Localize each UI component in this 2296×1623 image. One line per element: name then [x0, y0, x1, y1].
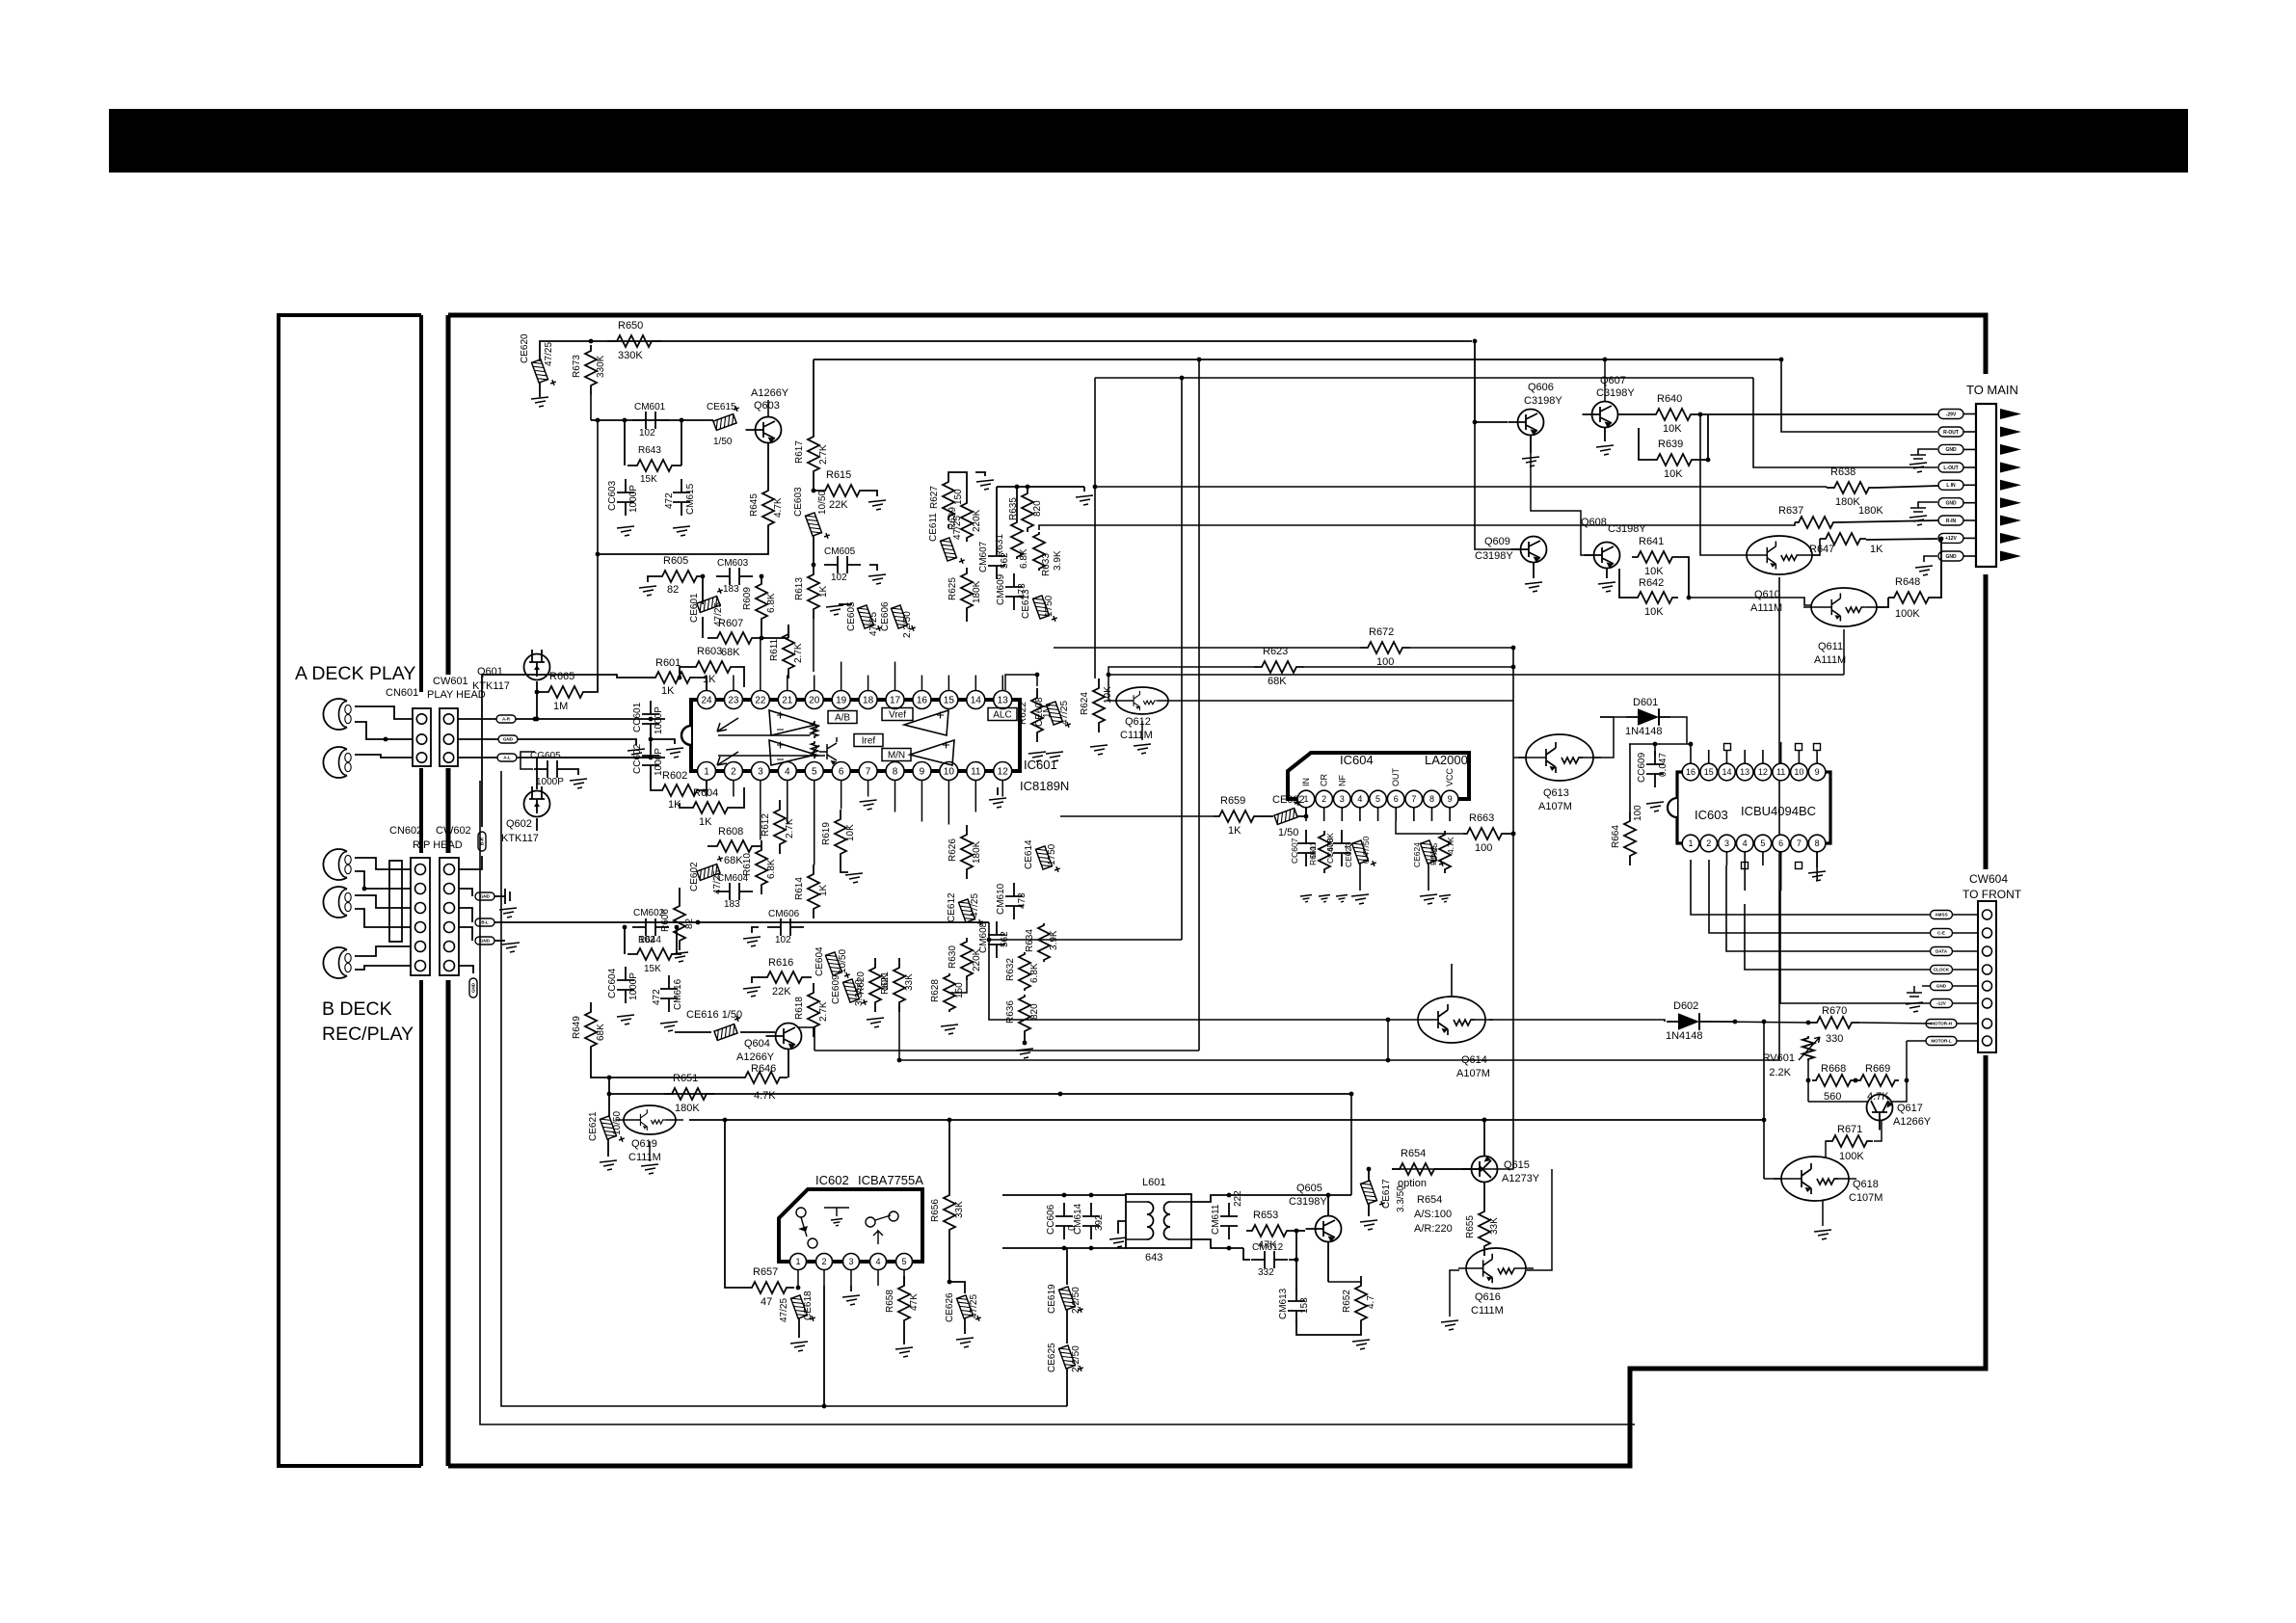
rec/play head B2	[323, 887, 351, 918]
IC601 pin stubs bottom	[706, 781, 707, 797]
svg-text:10K: 10K	[1663, 423, 1682, 435]
svg-text:R648: R648	[1895, 576, 1920, 588]
net label GND	[458, 738, 498, 740]
ground Q609	[1533, 563, 1535, 578]
svg-text:R632: R632	[1005, 958, 1016, 981]
svg-text:11: 11	[971, 767, 981, 778]
capacitor CG605	[534, 768, 571, 770]
svg-text:1N4148: 1N4148	[1625, 726, 1663, 737]
svg-text:B DECK: B DECK	[322, 998, 392, 1020]
resistor R603	[692, 661, 734, 673]
svg-text:R654: R654	[1417, 1194, 1442, 1206]
connector CW602	[440, 858, 459, 975]
wire q613 leads	[1513, 757, 1526, 758]
svg-text:VCC: VCC	[1445, 767, 1455, 786]
capacitor CE613	[1032, 593, 1057, 625]
resistor R627	[943, 478, 954, 520]
resistor R601	[650, 672, 696, 683]
resistor R631	[1011, 520, 1023, 559]
svg-text:R604: R604	[693, 787, 718, 799]
wire pin13 to R622	[1005, 675, 1037, 690]
svg-text:4.7K: 4.7K	[1446, 837, 1455, 854]
svg-text:A1273Y: A1273Y	[1502, 1173, 1540, 1184]
svg-text:CE617: CE617	[1381, 1179, 1392, 1209]
ground Q608	[1606, 569, 1608, 578]
net label R-IN pin 7 TO MAIN	[1938, 516, 1963, 525]
pack Q612	[1108, 687, 1176, 714]
svg-text:R615: R615	[826, 469, 851, 481]
pin 5 IC603	[1754, 835, 1772, 852]
pin 2 IC604	[1316, 790, 1333, 808]
resistor R615	[814, 481, 815, 491]
capacitor CM604	[716, 891, 753, 892]
capacitor CM614	[1090, 1203, 1092, 1239]
wire Q619 out	[689, 1119, 1764, 1121]
capacitor CM607	[996, 543, 998, 579]
svg-text:CE621: CE621	[588, 1111, 599, 1141]
svg-text:R665: R665	[549, 671, 574, 682]
svg-text:33K: 33K	[904, 973, 915, 991]
svg-text:IC601: IC601	[1024, 758, 1057, 772]
wire record bus 1090	[814, 1050, 1199, 1051]
svg-text:ICBU4094BC: ICBU4094BC	[1741, 804, 1816, 818]
resistor R643	[624, 420, 626, 466]
svg-text:R643: R643	[638, 445, 661, 456]
svg-text:R673: R673	[572, 355, 582, 378]
svg-text:CE606: CE606	[880, 601, 891, 631]
svg-text:5: 5	[1375, 794, 1380, 804]
capacitor CE616	[675, 1031, 711, 1033]
resistor R622	[1031, 688, 1043, 742]
capacitor CM608	[996, 921, 998, 958]
resistor R637	[1795, 517, 1837, 528]
pin 6 IC603	[1773, 835, 1790, 852]
svg-text:4: 4	[1357, 794, 1362, 804]
svg-text:CM611: CM611	[1211, 1204, 1221, 1235]
capacitor CM611	[1228, 1203, 1230, 1239]
resistor R609	[761, 574, 762, 576]
svg-text:2.7K: 2.7K	[818, 1001, 829, 1022]
resistor R607	[702, 617, 704, 638]
connector CN602	[389, 861, 402, 942]
svg-text:L IN: L IN	[1946, 483, 1956, 489]
net label CLOCK pin 4 CW604	[1983, 965, 1992, 974]
net label -29V pin 1 TO MAIN	[1938, 410, 1963, 419]
resistor R657	[744, 1282, 794, 1293]
svg-text:R653: R653	[1253, 1210, 1278, 1221]
svg-text:A1266Y: A1266Y	[1893, 1116, 1932, 1128]
resistor R653	[1246, 1225, 1293, 1237]
resistor R655	[1483, 1183, 1485, 1202]
svg-text:GND: GND	[480, 894, 491, 899]
pin 8 IC604	[1424, 790, 1441, 808]
net label +12V pin 8 TO MAIN	[1938, 533, 1963, 543]
svg-text:33K: 33K	[954, 1201, 965, 1218]
pin 8 IC603	[1808, 835, 1826, 852]
svg-text:10: 10	[944, 767, 955, 778]
wire A-L to IC	[517, 757, 665, 758]
svg-text:CE602: CE602	[689, 862, 700, 891]
resistor R635	[1022, 490, 1033, 532]
wire -29V bus	[1707, 414, 1709, 460]
pin 4 IC603	[1736, 835, 1753, 852]
wire D602 node	[1711, 1022, 1808, 1023]
pin 12 IC601	[994, 762, 1012, 781]
connector CN601	[413, 708, 431, 766]
svg-text:CE609: CE609	[831, 974, 841, 1004]
wire Q601	[536, 681, 538, 719]
wire vertical x1570	[1392, 701, 1513, 1169]
ground R673	[590, 391, 592, 395]
svg-text:R607: R607	[718, 618, 743, 629]
svg-text:100: 100	[1633, 805, 1643, 821]
pin 1 IC603	[1682, 835, 1699, 852]
wire y1100	[899, 1059, 1779, 1061]
svg-text:8: 8	[1429, 794, 1434, 804]
svg-text:IC603: IC603	[1695, 808, 1728, 822]
svg-text:560: 560	[1824, 1091, 1841, 1103]
net label DATA pin 3 CW604	[1983, 946, 1992, 956]
svg-text:180K: 180K	[972, 580, 982, 603]
net label B-L	[459, 908, 472, 922]
capacitor CE602	[694, 855, 727, 880]
svg-text:68K: 68K	[596, 1024, 606, 1041]
capacitor CE619	[1066, 1248, 1068, 1285]
svg-text:GND: GND	[1945, 501, 1957, 507]
transistor Q603	[746, 417, 782, 443]
ground IC602 pin3	[850, 1286, 852, 1291]
svg-text:A107M: A107M	[1538, 801, 1572, 812]
svg-text:68K: 68K	[1268, 676, 1287, 687]
resistor R644	[627, 948, 681, 960]
svg-text:Q619: Q619	[631, 1138, 657, 1150]
svg-text:GND: GND	[1945, 447, 1957, 453]
svg-text:4.7K: 4.7K	[754, 1090, 776, 1102]
svg-text:183: 183	[723, 584, 739, 595]
svg-text:CE613: CE613	[1021, 589, 1031, 619]
svg-text:CE605: CE605	[846, 601, 857, 631]
main schematic frame	[448, 315, 1986, 374]
svg-text:2.2/50: 2.2/50	[902, 611, 913, 638]
pin 6 IC601	[832, 762, 850, 781]
pin 3 IC603	[1719, 835, 1736, 852]
ground CM605	[869, 565, 877, 571]
pin 2 IC601	[724, 762, 742, 781]
svg-text:820: 820	[1029, 1003, 1040, 1020]
svg-text:472: 472	[652, 989, 662, 1005]
capacitor CE614	[1035, 843, 1060, 876]
svg-text:1000P: 1000P	[628, 972, 639, 1000]
transistor Q617	[1867, 1095, 1893, 1131]
ground CE620	[531, 397, 548, 407]
svg-text:R671: R671	[1837, 1124, 1862, 1135]
svg-text:A-L: A-L	[503, 756, 511, 760]
net label L-OUT pin 4 TO MAIN	[1938, 463, 1963, 472]
pin 4 IC602	[870, 1254, 887, 1270]
svg-text:Q617: Q617	[1897, 1103, 1923, 1114]
svg-text:7: 7	[1797, 838, 1802, 848]
pin 1 IC601	[698, 762, 716, 781]
svg-text:5: 5	[812, 767, 817, 778]
svg-text:-12V: -12V	[1936, 1001, 1947, 1006]
IC602 pin stubs	[797, 1270, 799, 1287]
svg-text:10/50: 10/50	[817, 491, 828, 515]
svg-text:47/25: 47/25	[1059, 701, 1070, 725]
resistor R670	[1809, 1017, 1859, 1028]
svg-text:CE601: CE601	[689, 593, 700, 623]
resistor R651	[664, 1088, 714, 1100]
capacitor CC606	[1063, 1203, 1065, 1239]
wire IC602 pin2 down	[823, 1286, 825, 1406]
svg-text:10K: 10K	[845, 824, 856, 841]
svg-text:2.7K: 2.7K	[818, 444, 829, 465]
svg-text:R636: R636	[1005, 1000, 1016, 1024]
net label B-R vertical	[459, 856, 482, 869]
svg-text:A107M: A107M	[1456, 1068, 1490, 1079]
svg-text:CE616 1/50: CE616 1/50	[686, 1009, 742, 1021]
svg-text:Iref: Iref	[862, 736, 876, 747]
net label R-OUT pin 2 TO MAIN	[1938, 427, 1963, 437]
svg-text:1K: 1K	[818, 585, 829, 598]
svg-text:100K: 100K	[1839, 1151, 1864, 1162]
svg-text:CW604: CW604	[1969, 872, 2008, 886]
svg-text:2: 2	[1706, 838, 1711, 848]
wire R650 net	[540, 341, 1472, 361]
svg-text:82: 82	[667, 584, 679, 596]
wire +12V net	[1866, 539, 1937, 540]
svg-text:222: 222	[1233, 1190, 1243, 1207]
svg-text:R/P HEAD: R/P HEAD	[413, 839, 463, 851]
resistor R672	[1360, 642, 1410, 653]
wire B-R up	[482, 675, 598, 827]
pin 18 IC601	[859, 691, 877, 709]
svg-text:562: 562	[1000, 552, 1010, 569]
capacitor CM612	[1251, 1259, 1288, 1261]
ground pin7 IC601	[860, 800, 877, 810]
svg-text:CE608: CE608	[1034, 697, 1045, 727]
ground GND pin6	[1918, 502, 1937, 508]
IC603 terminal squares	[1724, 744, 1731, 751]
svg-text:10K: 10K	[1664, 468, 1683, 480]
IC602 internal switches	[796, 1208, 806, 1217]
svg-text:A/R:220: A/R:220	[1414, 1223, 1453, 1235]
svg-text:R646: R646	[751, 1063, 776, 1075]
wire Q603 collector down	[598, 535, 768, 554]
svg-text:CM615: CM615	[685, 483, 696, 515]
svg-text:KTK117: KTK117	[472, 680, 510, 692]
capacitor CM601	[632, 419, 669, 421]
svg-text:4.7K: 4.7K	[773, 497, 784, 518]
resistor R641	[1632, 551, 1678, 563]
svg-text:2.2/50: 2.2/50	[1071, 1287, 1081, 1314]
svg-text:R634: R634	[1025, 929, 1035, 952]
pin 4 IC604	[1351, 790, 1369, 808]
svg-text:A/S:100: A/S:100	[1414, 1209, 1452, 1220]
capacitor CM603	[716, 575, 753, 577]
svg-text:TO MAIN: TO MAIN	[1966, 383, 2018, 397]
net label GND pin 6 TO MAIN	[1938, 498, 1963, 508]
wire Q609 base	[1475, 422, 1520, 549]
pack Q610	[1739, 536, 1820, 574]
resistor R646	[737, 1072, 788, 1083]
svg-text:16: 16	[1686, 767, 1695, 777]
svg-text:D601: D601	[1633, 697, 1658, 708]
wire L-OUT	[1753, 378, 1937, 467]
wire CC601-CC602	[650, 732, 652, 747]
pin 5 IC601	[805, 762, 823, 781]
svg-text:R668: R668	[1821, 1063, 1846, 1075]
IC603 pin stubs	[1690, 744, 1692, 763]
pin 2 IC603	[1700, 835, 1718, 852]
resistor R611	[788, 625, 789, 638]
svg-text:IN: IN	[1301, 778, 1311, 786]
inductor L601	[1126, 1194, 1191, 1248]
svg-text:Q606: Q606	[1528, 382, 1554, 393]
svg-text:R651: R651	[673, 1073, 698, 1084]
pin 23 IC601	[724, 691, 742, 709]
svg-text:+12V: +12V	[1945, 536, 1957, 542]
transistor Q616 pack	[1458, 1248, 1534, 1289]
wire Q618 collector riser	[1763, 1022, 1765, 1179]
header title bar	[109, 109, 2188, 173]
svg-text:C111M: C111M	[1471, 1305, 1504, 1317]
svg-text:OUT: OUT	[1391, 768, 1401, 787]
svg-text:CE615: CE615	[707, 402, 736, 412]
net label AMSS pin 1 CW604	[1983, 910, 1992, 919]
resistor R665	[541, 686, 591, 698]
svg-text:R611: R611	[769, 638, 780, 661]
svg-text:IC602: IC602	[815, 1173, 849, 1187]
pin 21 IC601	[778, 691, 796, 709]
svg-text:CN601: CN601	[386, 687, 418, 699]
svg-text:2.2/50: 2.2/50	[1071, 1345, 1081, 1372]
wire vertical x844	[813, 616, 814, 672]
svg-text:CE611: CE611	[928, 513, 939, 542]
resistor R659	[1214, 811, 1260, 822]
capacitor CE617	[1360, 1178, 1385, 1211]
resistor R640	[1648, 409, 1698, 420]
svg-text:22K: 22K	[829, 499, 848, 511]
svg-text:CLOCK: CLOCK	[1934, 968, 1950, 972]
svg-text:4.7: 4.7	[1366, 1295, 1376, 1309]
svg-text:-29V: -29V	[1946, 412, 1957, 417]
resistor R654	[1392, 1163, 1442, 1175]
svg-text:Q605: Q605	[1296, 1183, 1322, 1194]
connector CW601	[440, 708, 458, 766]
svg-text:CM604: CM604	[717, 873, 749, 884]
pin 16 IC603	[1682, 763, 1699, 781]
svg-text:CE618: CE618	[803, 1290, 814, 1320]
svg-text:1/50: 1/50	[713, 437, 733, 447]
svg-text:2.7K: 2.7K	[785, 818, 795, 838]
svg-text:68K: 68K	[721, 647, 740, 658]
resistor R662	[1439, 831, 1451, 873]
ground R605	[648, 576, 656, 582]
svg-text:6.8K: 6.8K	[766, 859, 777, 879]
svg-text:R-OUT: R-OUT	[1943, 430, 1959, 436]
svg-text:11: 11	[1776, 767, 1785, 777]
svg-text:392: 392	[1094, 1214, 1105, 1231]
pin 1 IC602	[790, 1254, 807, 1270]
svg-text:R616: R616	[768, 957, 793, 969]
svg-text:Q601: Q601	[477, 666, 503, 678]
svg-text:R661: R661	[1308, 845, 1318, 865]
svg-text:A111M: A111M	[1814, 654, 1846, 666]
capacitor CM613	[1295, 1288, 1297, 1324]
ground CW604 GND	[1922, 985, 1930, 987]
svg-text:7: 7	[1411, 794, 1416, 804]
capacitor CM606	[767, 926, 804, 928]
svg-text:R624: R624	[1080, 692, 1090, 715]
svg-text:R622: R622	[1018, 702, 1028, 725]
svg-text:R647: R647	[1809, 544, 1834, 555]
svg-text:MOTOR-H: MOTOR-H	[1931, 1022, 1953, 1026]
resistor R642	[1632, 592, 1678, 603]
IC601 internal wires	[718, 734, 810, 736]
svg-text:4: 4	[875, 1257, 880, 1266]
capacitor CE605	[839, 603, 852, 605]
svg-text:A DECK PLAY: A DECK PLAY	[295, 663, 415, 684]
transistor Q615	[1462, 1157, 1498, 1183]
wire CM601 row	[591, 419, 713, 421]
svg-text:10/50: 10/50	[838, 949, 848, 973]
pack Q613	[1518, 734, 1601, 781]
ground IC8189N	[997, 787, 999, 795]
svg-text:GND: GND	[471, 982, 476, 993]
svg-text:1: 1	[704, 767, 709, 778]
box label A/B	[828, 711, 857, 724]
svg-text:C111M: C111M	[628, 1152, 661, 1163]
capacitor CM615	[681, 479, 682, 516]
pin 5 IC602	[896, 1254, 913, 1270]
wire R-IN bus	[1039, 522, 1795, 530]
svg-text:6: 6	[1394, 794, 1399, 804]
pack Q614	[1410, 997, 1493, 1043]
svg-text:CE612: CE612	[947, 892, 957, 922]
net label -12V pin 6 CW604	[1983, 998, 1992, 1008]
pin 11 IC603	[1773, 763, 1790, 781]
rec/play head B1	[323, 849, 351, 880]
svg-text:CE603: CE603	[793, 487, 804, 517]
resistor R616	[758, 971, 812, 983]
svg-text:R608: R608	[718, 826, 743, 838]
resistor R636	[1019, 995, 1030, 1033]
wire head A	[355, 706, 413, 719]
pin 15 IC601	[940, 691, 958, 709]
net label GND vertical	[459, 966, 473, 973]
wire RV601 column	[1807, 1061, 1809, 1102]
svg-text:R669: R669	[1865, 1063, 1890, 1075]
svg-text:3: 3	[848, 1257, 853, 1266]
svg-text:330K: 330K	[618, 350, 643, 361]
capacitor CE612	[958, 896, 983, 929]
svg-text:1000P: 1000P	[628, 485, 639, 513]
capacitor CE603	[805, 510, 830, 543]
svg-text:R621: R621	[880, 971, 891, 995]
ground IC603 pin8	[1816, 852, 1818, 867]
capacitor CE624	[1420, 838, 1445, 870]
resistor R618	[808, 983, 819, 1037]
pin 5 IC604	[1370, 790, 1387, 808]
svg-text:AMSS: AMSS	[1935, 913, 1947, 918]
play head A-left	[323, 699, 351, 730]
resistor R620	[869, 958, 881, 1012]
svg-text:A/B: A/B	[835, 713, 850, 724]
svg-text:R605: R605	[663, 555, 688, 567]
svg-text:L601: L601	[1142, 1177, 1165, 1188]
svg-text:D602: D602	[1673, 1000, 1698, 1012]
svg-text:5: 5	[1760, 838, 1765, 848]
